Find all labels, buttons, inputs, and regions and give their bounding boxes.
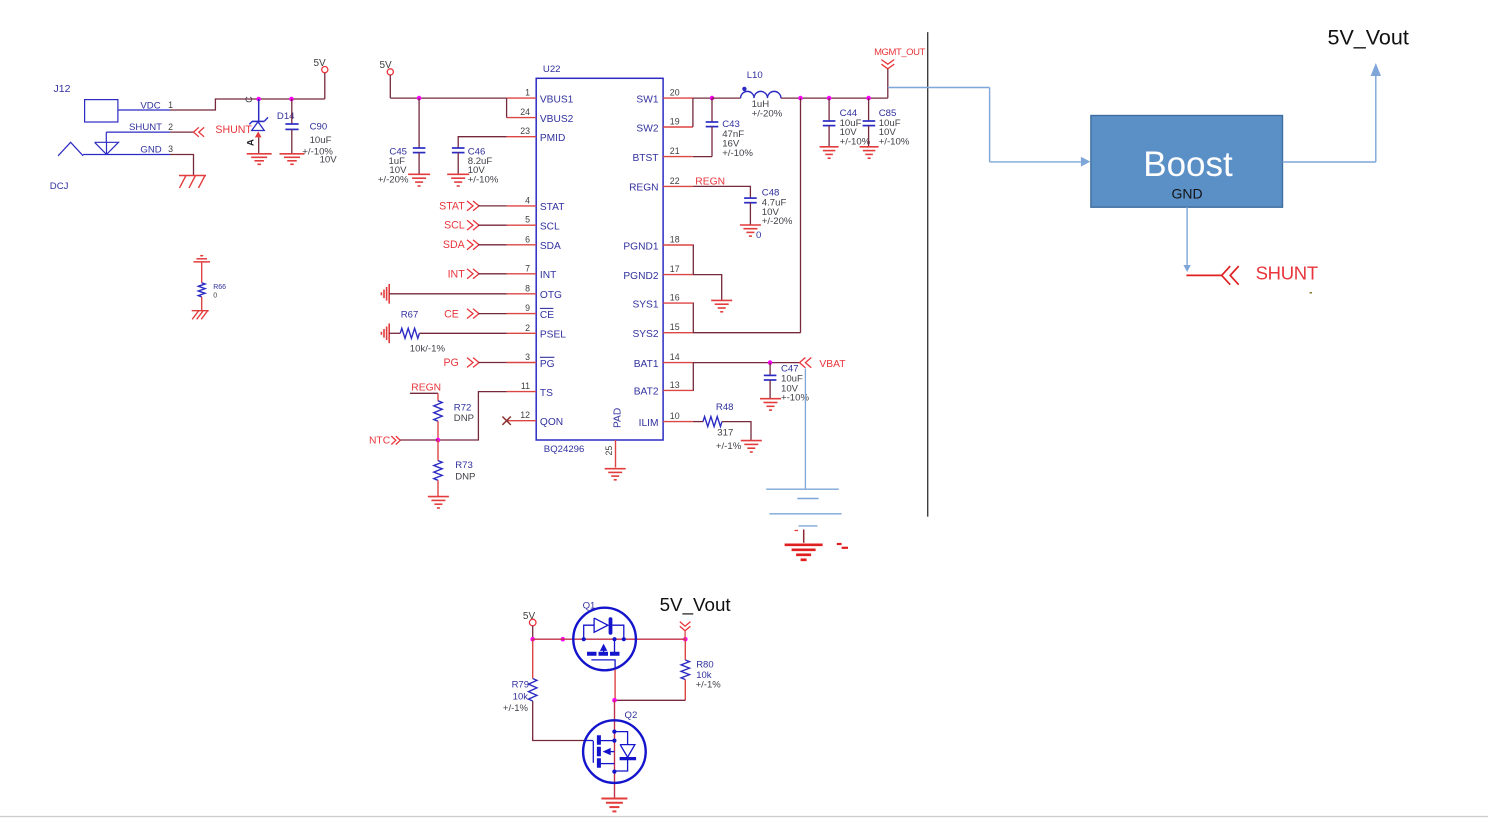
svg-text:DNP: DNP <box>454 413 474 424</box>
svg-text:0: 0 <box>756 230 761 241</box>
svg-text:SW1: SW1 <box>636 94 658 105</box>
svg-text:+/-1%: +/-1% <box>716 441 742 452</box>
svg-text:PMID: PMID <box>540 133 565 144</box>
svg-text:VBAT: VBAT <box>819 359 846 370</box>
svg-text:DCJ: DCJ <box>50 181 69 192</box>
svg-text:PGND1: PGND1 <box>623 241 658 252</box>
svg-text:1: 1 <box>525 88 530 98</box>
svg-text:SHUNT: SHUNT <box>215 124 252 136</box>
svg-text:10k: 10k <box>513 692 529 703</box>
svg-text:10: 10 <box>670 411 680 421</box>
svg-text:R66: R66 <box>213 284 226 291</box>
svg-text:OTG: OTG <box>540 290 562 301</box>
svg-text:4: 4 <box>525 195 530 205</box>
svg-text:SDA: SDA <box>443 239 466 251</box>
svg-text:INT: INT <box>540 270 556 281</box>
svg-text:+/-10%: +/-10% <box>840 136 871 147</box>
svg-text:R72: R72 <box>454 403 472 414</box>
svg-text:3: 3 <box>525 352 530 362</box>
svg-text:NTC: NTC <box>369 436 391 447</box>
svg-text:VBUS2: VBUS2 <box>540 114 574 125</box>
svg-text:10uF: 10uF <box>310 135 332 146</box>
svg-text:+/-20%: +/-20% <box>378 175 409 186</box>
svg-text:5: 5 <box>525 215 530 225</box>
svg-text:MGMT_OUT: MGMT_OUT <box>874 47 925 58</box>
svg-text:Q1: Q1 <box>583 601 596 612</box>
svg-text:VDC: VDC <box>140 101 160 112</box>
svg-text:C: C <box>244 96 254 103</box>
svg-text:PGND2: PGND2 <box>623 271 658 282</box>
svg-text:PSEL: PSEL <box>540 330 566 341</box>
svg-text:14: 14 <box>670 352 680 362</box>
svg-text:TS: TS <box>540 388 553 399</box>
svg-text:15: 15 <box>670 322 680 332</box>
svg-text:BAT1: BAT1 <box>634 359 659 370</box>
svg-text:VBUS1: VBUS1 <box>540 94 574 105</box>
svg-text:Boost: Boost <box>1143 145 1233 184</box>
svg-text:R80: R80 <box>696 660 713 671</box>
svg-text:CE: CE <box>540 310 554 321</box>
svg-text:+/-20%: +/-20% <box>762 216 793 227</box>
svg-text:SYS2: SYS2 <box>632 329 658 340</box>
svg-text:+/-1%: +/-1% <box>696 680 722 691</box>
svg-text:19: 19 <box>670 117 680 127</box>
svg-text:L10: L10 <box>747 70 763 81</box>
svg-text:3: 3 <box>168 144 173 154</box>
svg-text:BAT2: BAT2 <box>634 387 659 398</box>
svg-text:8: 8 <box>525 283 530 293</box>
svg-text:+/-10%: +/-10% <box>468 175 499 186</box>
svg-text:SCL: SCL <box>444 220 465 232</box>
svg-text:Q2: Q2 <box>625 710 638 721</box>
svg-text:GND: GND <box>1171 186 1202 202</box>
svg-text:2: 2 <box>525 323 530 333</box>
svg-text:7: 7 <box>525 263 530 273</box>
svg-text:25: 25 <box>604 446 614 456</box>
svg-text:6: 6 <box>525 234 530 244</box>
svg-text:QON: QON <box>540 417 563 428</box>
svg-text:18: 18 <box>670 235 680 245</box>
svg-text:10V: 10V <box>320 154 338 165</box>
svg-text:STAT: STAT <box>439 200 465 212</box>
svg-text:PAD: PAD <box>613 408 624 428</box>
svg-text:REGN: REGN <box>411 383 441 394</box>
svg-text:+/-10%: +/-10% <box>879 136 910 147</box>
svg-text:R79: R79 <box>512 680 529 691</box>
svg-text:SHUNT: SHUNT <box>129 122 162 133</box>
svg-text:317: 317 <box>717 428 733 439</box>
svg-text:5V: 5V <box>523 611 536 622</box>
svg-text:BTST: BTST <box>632 153 658 164</box>
svg-text:DNP: DNP <box>455 472 475 483</box>
svg-text:ILIM: ILIM <box>639 418 659 429</box>
svg-text:C90: C90 <box>310 122 328 133</box>
svg-text:23: 23 <box>520 126 530 136</box>
svg-text:11: 11 <box>521 381 530 391</box>
svg-text:24: 24 <box>520 107 530 117</box>
svg-text:U22: U22 <box>543 64 561 75</box>
svg-text:5V: 5V <box>314 58 327 69</box>
svg-text:17: 17 <box>670 264 680 274</box>
svg-text:1: 1 <box>168 100 173 110</box>
svg-text:SHUNT: SHUNT <box>1256 263 1318 284</box>
svg-text:+/-20%: +/-20% <box>752 108 783 119</box>
svg-text:R73: R73 <box>455 460 473 471</box>
svg-text:5V_Vout: 5V_Vout <box>660 594 732 616</box>
svg-text:10k/-1%: 10k/-1% <box>410 344 446 355</box>
svg-text:A: A <box>246 139 257 146</box>
svg-text:REGN: REGN <box>695 176 725 187</box>
svg-text:SDA: SDA <box>540 241 561 252</box>
svg-text:PG: PG <box>540 359 555 370</box>
svg-text:J12: J12 <box>54 83 71 95</box>
svg-text:REGN: REGN <box>629 183 658 194</box>
svg-text:STAT: STAT <box>540 202 565 213</box>
svg-text:5V_Vout: 5V_Vout <box>1328 26 1409 50</box>
svg-text:+/-10%: +/-10% <box>722 148 753 159</box>
svg-text:SCL: SCL <box>540 222 560 233</box>
svg-text:R67: R67 <box>401 310 419 321</box>
svg-text:CE: CE <box>444 308 459 320</box>
svg-text:22: 22 <box>670 176 680 186</box>
svg-text:R48: R48 <box>716 402 734 413</box>
svg-text:GND: GND <box>140 145 161 156</box>
svg-text:9: 9 <box>525 303 530 313</box>
svg-text:PG: PG <box>443 357 458 369</box>
svg-text:2: 2 <box>168 122 173 132</box>
svg-text:SYS1: SYS1 <box>632 299 658 310</box>
svg-text:20: 20 <box>670 88 680 98</box>
svg-text:SW2: SW2 <box>636 123 658 134</box>
svg-text:0: 0 <box>213 293 217 300</box>
svg-text:BQ24296: BQ24296 <box>544 444 585 455</box>
svg-text:21: 21 <box>670 146 680 156</box>
svg-text:INT: INT <box>448 268 466 280</box>
svg-text:13: 13 <box>670 380 680 390</box>
svg-text:16: 16 <box>670 293 680 303</box>
svg-text:12: 12 <box>520 410 530 420</box>
svg-text:+/-1%: +/-1% <box>503 703 529 714</box>
